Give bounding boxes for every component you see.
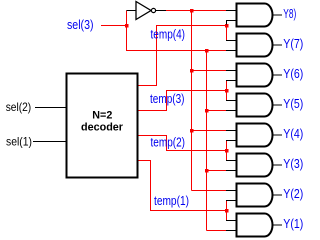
wire O3 elbow down to U6 xyxy=(226,151,228,161)
wire O4 elbow up to U7 xyxy=(226,201,228,211)
node sel(3) junction xyxy=(125,24,129,28)
AND gate U8 xyxy=(237,214,273,237)
wire O2 elbow up to U3 xyxy=(226,81,228,91)
wire sel(3) branch to U6 xyxy=(207,170,227,172)
node temp(4) rail tap xyxy=(190,9,194,13)
wire O4 elbow down to U8 xyxy=(226,211,228,221)
wire temp(4) branch to U7 xyxy=(192,190,227,192)
svg-text:Y(4): Y(4) xyxy=(283,127,303,141)
node O3 junction xyxy=(225,149,229,153)
AND gate U6 xyxy=(237,154,273,177)
wire output leads AND gates xyxy=(273,15,283,225)
wire sel(3) up to inverter xyxy=(126,11,128,26)
AND gate U4 xyxy=(237,94,273,117)
wire sel(3) branch to U4 xyxy=(207,110,227,112)
wire sel(3) branch to U8 xyxy=(207,230,227,232)
AND gate U2 xyxy=(237,34,273,57)
svg-text:N=2: N=2 xyxy=(92,109,112,121)
node temp(4) tap U5 xyxy=(190,129,194,133)
AND gate U7 xyxy=(237,184,273,207)
svg-text:Y(6): Y(6) xyxy=(283,67,303,81)
decoder U9 box xyxy=(67,74,138,178)
wire temp(4) inverter output red xyxy=(166,10,227,12)
svg-text:temp(2): temp(2) xyxy=(151,136,186,150)
svg-text:sel(3): sel(3) xyxy=(67,18,94,32)
wire sel(3) vertical rail xyxy=(206,51,208,231)
node O4 junction xyxy=(225,209,229,213)
wire temp(4) branch to U3 xyxy=(192,70,227,72)
AND gate U3 xyxy=(237,64,273,87)
svg-text:Y(7): Y(7) xyxy=(283,37,303,51)
svg-text:temp(4): temp(4) xyxy=(151,28,186,42)
wire temp(1) decoder output O4 xyxy=(139,161,227,211)
node sel(3) tap Y5 xyxy=(205,109,209,113)
wire O3 decoder output xyxy=(139,136,227,151)
svg-text:Y(2): Y(2) xyxy=(283,187,303,201)
svg-text:temp(3): temp(3) xyxy=(150,92,185,106)
wire black input stubs AND gates xyxy=(226,11,237,231)
wire sel(3) down branch xyxy=(127,26,227,51)
wire sel(3) label lead xyxy=(101,25,127,27)
AND gate U5 xyxy=(237,124,273,147)
wire temp(3) elbow down to U2 xyxy=(226,26,228,41)
svg-text:decoder: decoder xyxy=(81,121,124,133)
inverter bubble xyxy=(151,8,155,12)
wire O2 elbow down to U4 xyxy=(226,91,228,101)
AND gate U1 xyxy=(237,4,273,237)
wire sel(1) lead xyxy=(33,141,66,143)
wire temp(3) elbow up to U1 black xyxy=(226,21,228,25)
wire inverter input black xyxy=(127,10,137,12)
svg-text:Y(3): Y(3) xyxy=(283,157,303,171)
wire temp(3) decoder output O1 xyxy=(139,26,227,86)
svg-text:temp(1): temp(1) xyxy=(154,194,189,208)
node temp(4) tap U3 xyxy=(190,69,194,73)
svg-text:Y8): Y8) xyxy=(283,7,296,21)
svg-text:sel(1): sel(1) xyxy=(6,135,32,148)
svg-text:sel(2): sel(2) xyxy=(6,101,32,114)
node sel(3) tap Y3 xyxy=(205,169,209,173)
op amp? no: inverter U0 triangle xyxy=(136,2,156,20)
node temp(3) junction xyxy=(225,24,229,28)
svg-text:Y(1): Y(1) xyxy=(283,217,303,231)
node O2 junction xyxy=(225,89,229,93)
wire O3 elbow up to U5 xyxy=(226,141,228,151)
wire temp(4) branch to U5 xyxy=(192,130,227,132)
svg-text:Y(5): Y(5) xyxy=(283,97,303,111)
wire sel(2) lead xyxy=(35,107,66,109)
wire temp(2) decoder output O2 xyxy=(139,91,227,111)
node sel(3) rail tap xyxy=(205,49,209,53)
wire temp(4) vertical rail xyxy=(191,11,193,191)
wire inverter output black xyxy=(156,10,166,12)
